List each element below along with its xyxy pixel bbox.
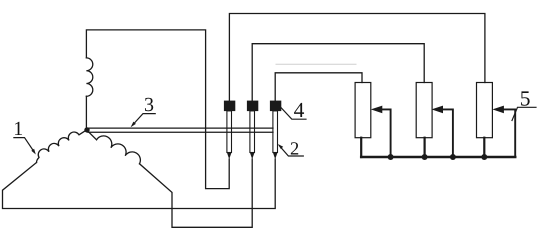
- brush 2 (black square): [247, 101, 258, 112]
- rheostat R1 wiper lead: [382, 109, 391, 157]
- rheostat R3 wiper arrow: [492, 106, 504, 114]
- node star point junction dot: [84, 127, 89, 132]
- node junction dot bus/R1 wiper: [388, 154, 394, 160]
- slip ring 1 tapered tip: [227, 153, 232, 160]
- label 3 leader line with underline: [133, 114, 155, 125]
- svg-text:2: 2: [290, 139, 299, 159]
- wire brush 2 to rheostat R2 top: [252, 44, 424, 101]
- rotor winding phase B coil (left diagonal, 4 bumps): [37, 130, 87, 163]
- slip ring 2 tapered tip: [250, 153, 255, 160]
- brush 1 (black square): [224, 101, 235, 112]
- rheostat R1 body: [355, 83, 371, 138]
- label 2 leader arrowhead: [278, 144, 283, 149]
- rheostat R2 body: [416, 83, 432, 138]
- slip ring 2 barrel (white fill so shaft lines stop at edges): [250, 111, 255, 153]
- label 4 leader line with underline: [280, 106, 306, 119]
- svg-text:3: 3: [144, 94, 154, 116]
- label 3 leader arrowhead: [131, 122, 136, 128]
- label 5 leader line with underline: [512, 107, 536, 120]
- label 1 leader arrowhead: [31, 149, 36, 155]
- wire phase A upper lead to slip ring 1 (up, right, down, right, up): [86, 30, 229, 189]
- rotor winding phase A coil (vertical, 3 bumps): [86, 58, 92, 96]
- rheostat R2 wiper lead: [442, 109, 453, 157]
- rheostat R3 body: [477, 83, 493, 138]
- wire R1 bottom to bus: [360, 138, 362, 157]
- rheostat R2 wiper arrow: [432, 106, 444, 114]
- bus shorting bar: [361, 156, 515, 159]
- wire brush 1 to rheostat R3 top: [229, 14, 485, 101]
- rheostat R3 wiper lead: [503, 109, 515, 157]
- wire phase C lead to slip ring 2 (diagonal, down, right, up): [140, 159, 253, 227]
- slip ring 3 barrel: [273, 111, 278, 153]
- wire phase B lead to slip ring 3 (diagonal, down, right along bottom, up): [3, 159, 276, 209]
- rheostat R1 wiper arrow: [371, 106, 383, 114]
- wire phase A lower lead to star point: [85, 96, 87, 127]
- svg-text:4: 4: [294, 98, 305, 122]
- slip ring 3 tapered tip: [273, 153, 278, 160]
- svg-text:1: 1: [13, 118, 23, 140]
- slip ring 1 barrel: [227, 111, 232, 153]
- node junction dot bus/R2 wiper: [450, 154, 456, 160]
- shaft lower line: [88, 131, 273, 133]
- brush 3 (black square): [270, 101, 281, 112]
- wire faint scan ghost above brush3 wire: [276, 63, 356, 65]
- rotor winding phase C coil (right diagonal, 3 bumps): [87, 130, 141, 164]
- wire brush 3 to rheostat R1 top: [275, 73, 362, 101]
- label 1 leader line with underline: [14, 138, 33, 151]
- node junction dot bus/R3 bottom: [481, 154, 487, 160]
- node junction dot bus/R2 bottom: [422, 154, 428, 160]
- svg-text:5: 5: [520, 86, 531, 110]
- wire R3 bottom to bus: [483, 138, 485, 157]
- label 2 leader line with underline: [279, 146, 303, 156]
- shaft upper line: [88, 127, 273, 129]
- wire R2 bottom to bus: [424, 138, 426, 157]
